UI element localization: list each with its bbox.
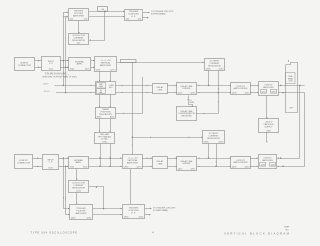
svg-text:Q463: Q463 [271,164,275,166]
svg-text:Q263: Q263 [271,91,275,93]
svg-text:Q334: Q334 [87,218,92,220]
svg-text:AMPL DRIVER: AMPL DRIVER [233,161,248,164]
svg-text:C. F.: C. F. [48,162,53,164]
svg-text:Q393: Q393 [219,142,224,144]
svg-text:Q433: Q433 [232,167,237,169]
svg-text:V133: V133 [70,69,74,71]
svg-text:Q193: Q193 [219,69,224,71]
svg-text:B267: B267 [110,117,114,119]
svg-text:REGULATOR: REGULATOR [207,137,220,140]
svg-text:R330: R330 [102,142,107,144]
svg-text:LINE: LINE [158,89,163,91]
svg-text:V800: V800 [266,131,270,133]
svg-text:L44: L44 [101,9,104,11]
svg-text:Q413: Q413 [178,169,183,171]
svg-text:V233: V233 [70,167,74,169]
svg-text:Q453: Q453 [261,164,265,166]
svg-text:Q213: Q213 [178,93,183,95]
svg-text:NETWORK: NETWORK [181,116,192,118]
svg-text:Q373: Q373 [137,167,142,169]
svg-text:Q173: Q173 [111,70,116,72]
svg-text:V123: V123 [49,69,53,71]
svg-text:VERT: VERT [99,84,103,86]
svg-text:CRT: CRT [289,107,294,109]
svg-text:Q383: Q383 [204,142,209,144]
svg-text:REGULATOR: REGULATOR [72,186,85,189]
svg-text:Q34: Q34 [84,19,88,21]
svg-text:VERTICAL BLOCK DIAGRAM: VERTICAL BLOCK DIAGRAM [224,231,290,235]
svg-text:Q223: Q223 [191,93,196,95]
svg-text:Q44: Q44 [126,19,130,21]
svg-text:SUPPLY: SUPPLY [264,126,273,128]
svg-text:CONNECTOR: CONNECTOR [17,162,31,164]
svg-text:REGULATOR: REGULATOR [72,39,85,42]
svg-text:Q344: Q344 [124,217,129,219]
svg-text:V243: V243 [83,167,87,169]
svg-text:AMPL: AMPL [77,63,84,66]
svg-text:Q443: Q443 [245,167,250,169]
svg-text:Q183: Q183 [206,69,211,71]
svg-text:Q243: Q243 [245,93,250,95]
svg-text:DRIVER: DRIVER [183,88,191,90]
svg-text:Q423: Q423 [191,169,196,171]
svg-text:AMPL DRIVER: AMPL DRIVER [233,87,248,90]
svg-text:(SWITCHES ON FRONT PANEL OF UN: (SWITCHES ON FRONT PANEL OF UNIT) [42,76,77,79]
svg-text:V143: V143 [85,69,89,71]
svg-text:+125 V: +125 V [43,84,50,86]
svg-text:TYPE 3A3 PLUG-IN UNIT: TYPE 3A3 PLUG-IN UNIT [45,72,68,75]
svg-text:Q253: Q253 [261,91,265,93]
svg-text:TYPE 564 OSCILLOSCOPE: TYPE 564 OSCILLOSCOPE [31,232,78,235]
svg-text:E. F.: E. F. [131,16,136,18]
svg-text:SHIFT: SHIFT [190,102,195,104]
svg-text:AMPLIFIER: AMPLIFIER [76,212,87,215]
svg-text:DC BAL: DC BAL [101,138,108,141]
svg-text:REGULATOR: REGULATOR [208,64,221,67]
svg-text:AMPLIFIER: AMPLIFIER [100,64,111,67]
svg-text:E. F.: E. F. [131,212,136,214]
svg-text:(LOWER BEAM): (LOWER BEAM) [153,209,168,212]
svg-text:Q314: Q314 [76,191,81,193]
svg-text:−12.2 V: −12.2 V [43,91,50,93]
svg-text:Q54: Q54 [138,19,142,21]
svg-text:Q24: Q24 [70,19,74,21]
svg-text:INDICATORS: INDICATORS [99,113,112,116]
svg-text:Q354: Q354 [139,217,144,219]
svg-text:LINE: LINE [158,163,163,165]
svg-text:V223: V223 [48,168,52,170]
svg-text:(UPPER BEAM): (UPPER BEAM) [151,12,166,15]
svg-text:Q233: Q233 [232,93,237,95]
svg-text:CONNECTOR: CONNECTOR [18,65,32,67]
svg-text:AMPLIFIER: AMPLIFIER [73,14,84,17]
svg-text:B167: B167 [97,117,101,119]
svg-text:MRH: MRH [284,227,289,229]
svg-text:AMPLIFIER: AMPLIFIER [263,86,274,89]
svg-text:C. F.: C. F. [49,63,54,65]
svg-text:Q163: Q163 [96,70,101,72]
svg-text:Q14: Q14 [77,43,81,45]
svg-text:AMPL: AMPL [76,161,83,164]
svg-text:Q324: Q324 [71,218,76,220]
svg-text:AMPLIFIER: AMPLIFIER [262,159,273,162]
svg-text:DRIVER: DRIVER [183,163,191,165]
svg-text:Q363: Q363 [124,167,129,169]
svg-text:AMPLIFIER: AMPLIFIER [127,161,138,164]
